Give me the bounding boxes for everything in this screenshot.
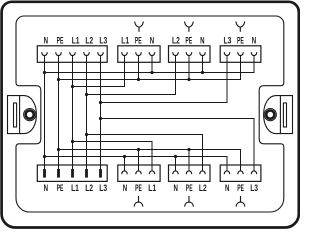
wire L3 feed riser X1.L3 to X5.L3 [100,55,102,169]
wire X7.N riser [175,157,177,171]
svg-text:N: N [44,183,49,193]
wire X3.N drop [202,55,204,72]
wire L1 feed riser X1.L1 to X5.L1 [72,55,74,169]
X7 socket contact PE [186,171,192,174]
svg-text:N: N [252,36,257,46]
terminal strip X2 (top L1 PE N) [118,46,160,63]
svg-text:PE: PE [185,36,192,46]
svg-text:L1: L1 [71,183,79,193]
svg-text:N: N [225,183,230,193]
wire PE feed riser X1.PE to X5.PE [58,55,60,169]
X5 feed terminal L3 [99,169,102,178]
left lug screw ring outer [24,109,36,121]
svg-text:PE: PE [135,183,142,193]
X6 socket contact N [122,171,128,174]
junction PE bus / X3.PE [187,78,190,81]
junction PE bottom / X6.PE [137,148,140,151]
X1 socket contact L3 [98,52,104,55]
wire X2.PE drop [138,55,140,79]
junction N bus / X3.N [201,71,204,74]
wire L3 top branch to X4.L3 [101,55,228,102]
svg-text:L2: L2 [85,36,93,46]
svg-text:L3: L3 [99,183,107,193]
svg-text:N: N [123,183,128,193]
svg-text:L1: L1 [148,183,156,193]
svg-text:N: N [200,36,205,46]
terminal strip X8 (bottom N PE L3) [220,165,261,181]
wire PE top bus to X4.PE [59,55,241,79]
X4 socket contact PE [238,52,244,55]
wire L2 top branch to X3.L2 [87,55,176,94]
wire N top bus to X4.N [45,55,255,72]
wire N feed riser X1.N to X5.N [44,55,46,169]
left lug slot [14,103,17,127]
wire X3.PE drop [188,55,190,79]
right lug screw ring outer [264,109,276,121]
X1 socket contact L1 [70,52,76,55]
left lug bullet outline [20,96,37,134]
terminal strip X5 (bottom feed N PE L1 L2 L3) [37,165,107,181]
X8 socket contact PE [238,171,244,174]
wire X7.PE riser [188,150,190,171]
right lug slot [283,103,286,127]
junction L2 top / feed riser [85,93,88,96]
junction PE bottom / X7.PE [187,148,190,151]
junction N bottom / X6.N [123,155,126,158]
X5 feed terminal PE [57,169,60,178]
svg-text:L3: L3 [224,36,232,46]
terminal strip X3 (top L2 PE N) [169,46,211,63]
svg-text:PE: PE [237,183,244,193]
left mounting lug bracket [8,96,20,134]
terminal strip X7 (bottom N PE L2) [169,165,211,181]
svg-text:PE: PE [186,183,193,193]
enclosure inner wall with mounting bays [16,16,284,212]
X6 socket contact L1 [149,171,155,174]
X4 socket contact N [251,52,257,55]
svg-text:L1: L1 [121,36,129,46]
svg-text:L3: L3 [99,36,107,46]
X5 feed terminal N [43,169,46,178]
junction N bottom / feed riser [43,155,46,158]
junction L2 bottom / feed riser [85,133,88,136]
X7 socket contact L2 [200,171,206,174]
X4 socket contact L3 [224,52,230,55]
terminal strip X4 (top L3 PE N) [220,46,261,63]
X1 socket contact N [42,52,48,55]
svg-text:L2: L2 [199,183,207,193]
X3 socket contact PE [186,52,192,55]
plug symbol above X2 [135,22,144,32]
right mounting lug bracket [280,96,292,134]
wire X6.N riser [124,157,126,171]
svg-text:L2: L2 [85,183,93,193]
wire X6.PE riser [138,150,140,171]
left lug screw ring [26,111,34,119]
wire L3 bottom branch to X8.L3 [101,119,255,171]
junction L1 bottom / feed riser [71,140,74,143]
junction N bottom / X7.N [174,155,177,158]
wire L2 feed riser X1.L2 to X5.L2 [86,55,88,169]
svg-text:N: N [44,36,49,46]
X7 socket contact N [173,171,179,174]
plug symbol above X3 [185,22,194,32]
svg-text:PE: PE [57,183,64,193]
svg-text:PE: PE [135,36,142,46]
X5 feed terminal L1 [71,169,74,178]
X8 socket contact N [224,171,230,174]
svg-text:PE: PE [57,36,64,46]
X5 feed terminal L2 [85,169,88,178]
svg-text:N: N [174,183,179,193]
svg-text:L2: L2 [172,36,180,46]
X2 socket contact PE [136,52,142,55]
plug symbol below X7 [185,196,194,207]
X2 socket contact L1 [122,52,128,55]
wire N bottom bus to X8.N [45,157,228,171]
junction L3 top / feed riser [99,101,102,104]
wire L1 top branch to X2.L1 [73,55,125,86]
right lug screw ring [266,111,274,119]
X1 socket contact PE [56,52,62,55]
junction L3 bottom / feed riser [99,117,102,120]
wire L2 bottom branch to X7.L2 [87,135,203,171]
X6 socket contact PE [136,171,142,174]
svg-text:L3: L3 [250,183,258,193]
junction PE bus / feed riser [57,78,60,81]
svg-text:PE: PE [237,36,244,46]
junction PE bottom / feed riser [57,148,60,151]
terminal strip X1 (top left N PE L1 L2 L3) [37,46,107,63]
svg-text:N: N [150,36,155,46]
wire L1 bottom branch to X6.L1 [73,142,153,171]
X1 socket contact L2 [84,52,90,55]
plug symbol above X4 [236,22,245,32]
X2 socket contact N [149,52,155,55]
plug symbol below X8 [236,196,245,207]
plug symbol below X6 [134,196,143,207]
junction N bus / X2.N [150,71,153,74]
X8 socket contact L3 [251,171,257,174]
junction PE bus / X2.PE [137,78,140,81]
right lug bullet outline [264,96,281,134]
wire PE bottom bus to X8.PE [59,150,241,171]
terminal strip X6 (bottom N PE L1) [118,165,160,181]
wire X2.N drop [151,55,153,72]
junction N bus / feed riser [43,71,46,74]
X3 socket contact L2 [173,52,179,55]
junction L1 top / feed riser [71,85,74,88]
svg-text:L1: L1 [72,36,80,46]
X3 socket contact N [200,52,206,55]
